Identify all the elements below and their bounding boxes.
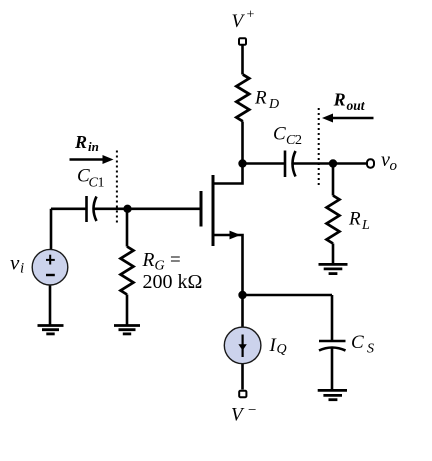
- svg-text:L: L: [361, 218, 370, 233]
- svg-text:i: i: [20, 260, 24, 276]
- svg-text:Q: Q: [277, 342, 287, 357]
- svg-text:S: S: [367, 341, 374, 356]
- svg-text:1: 1: [98, 176, 105, 191]
- svg-text:C: C: [273, 124, 286, 145]
- svg-text:2: 2: [295, 133, 302, 148]
- svg-text:D: D: [268, 97, 279, 112]
- svg-text:200 kΩ: 200 kΩ: [143, 271, 203, 293]
- svg-text:V: V: [232, 11, 246, 32]
- svg-text:R: R: [142, 250, 155, 271]
- svg-text:R: R: [348, 209, 361, 230]
- svg-text:−: −: [248, 403, 256, 419]
- svg-text:R: R: [254, 88, 267, 109]
- svg-text:=: =: [170, 250, 181, 271]
- svg-text:R: R: [74, 132, 87, 152]
- svg-text:C: C: [351, 332, 364, 353]
- svg-text:R: R: [333, 89, 346, 109]
- svg-text:+: +: [247, 8, 255, 23]
- svg-text:v: v: [10, 251, 20, 275]
- svg-text:o: o: [390, 158, 398, 174]
- svg-text:out: out: [347, 98, 366, 113]
- svg-text:V: V: [231, 404, 245, 425]
- svg-text:in: in: [88, 139, 99, 154]
